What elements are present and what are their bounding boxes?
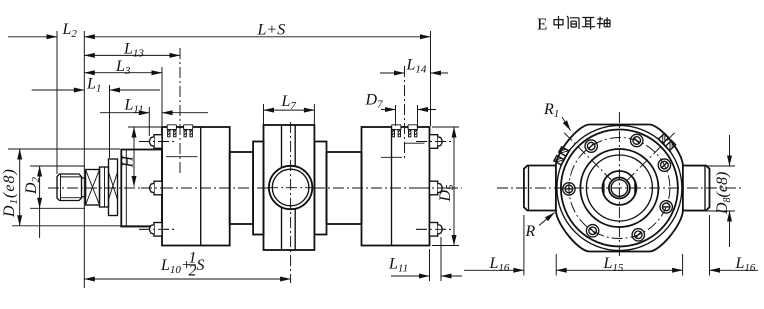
dimension D1(e8): [8, 149, 150, 226]
right pin chamfer line: [704, 166, 706, 210]
cylinder tube right section: [327, 152, 362, 224]
rear head block: [362, 127, 430, 246]
rear port cross ticks: [381, 143, 425, 157]
svg-text:H: H: [120, 155, 137, 169]
glyph jian: [567, 16, 579, 29]
dimension L13: [84, 54, 180, 56]
tie rod axis lines rear: [416, 142, 452, 230]
gland flange: [121, 150, 162, 227]
dimension L16 left: [464, 215, 556, 276]
rod neck: [82, 178, 86, 197]
rod collar: [100, 167, 109, 207]
dimension L2: [8, 31, 57, 174]
dimension L+S: [84, 31, 430, 288]
dimension L3: [161, 67, 163, 126]
dimension D7: [381, 105, 418, 126]
screw 1: [658, 159, 670, 171]
screw 2: [631, 134, 643, 146]
dimension L7: [264, 104, 315, 126]
glyph zhong: [554, 16, 563, 29]
screw 3: [585, 140, 597, 152]
front port 2: [184, 125, 193, 137]
tie rod nut rear top: [430, 135, 443, 149]
piston rod thread end: [57, 174, 82, 201]
dimension D5: [432, 127, 459, 246]
tie rod nut rear bottom: [430, 223, 443, 237]
cylinder tube left section: [230, 152, 253, 224]
diagonal center line upper-right: [627, 132, 676, 181]
front port center line: [179, 48, 181, 175]
rear port 1: [392, 125, 401, 137]
front head weld line: [200, 127, 202, 246]
dimension L11 rear: [430, 237, 442, 281]
cover circle inner: [586, 155, 652, 221]
tie rod nut front bottom: [149, 223, 162, 237]
glyph zhou: [597, 17, 610, 29]
svg-text:2: 2: [189, 263, 197, 280]
front port cross tick: [166, 156, 198, 158]
thread minor diameter lines: [61, 177, 82, 198]
title E middle trunnion: [537, 15, 610, 34]
cover circle outer: [580, 149, 658, 227]
dimension L14: [380, 72, 405, 74]
rod hole chamfer circle: [609, 178, 630, 199]
screw 4: [563, 183, 575, 195]
tie rod axis lines front: [139, 142, 176, 230]
right view vertical center line: [618, 112, 620, 256]
dimension H: [128, 126, 162, 128]
tie rod nut rear middle: [430, 181, 443, 195]
dimension L15: [682, 254, 684, 276]
dimension D2: [30, 166, 85, 238]
svg-text:S: S: [197, 257, 205, 274]
body circle: [557, 126, 682, 251]
gland boss circle: [602, 171, 636, 205]
rear port top-edge breaks: [392, 126, 417, 129]
trunnion pin circle: [269, 166, 312, 209]
diagonal center line upper-left: [564, 132, 613, 181]
svg-text:E: E: [537, 15, 547, 34]
gland box with cross: [109, 159, 118, 216]
left pin chamfer line: [528, 166, 530, 210]
dimension L1: [32, 85, 110, 158]
main horizontal center line of cylinder side view: [48, 187, 462, 189]
svg-text:D1(e8): D1(e8): [1, 168, 20, 218]
trunnion right retainer disc: [314, 142, 326, 235]
middle trunnion block: [264, 125, 315, 250]
dimension L16 right: [710, 215, 759, 276]
svg-text:L+S: L+S: [257, 22, 286, 39]
rod nut box with cross: [86, 170, 100, 206]
right trunnion pin: [683, 166, 710, 211]
glyph er: [582, 18, 595, 30]
gland boss flats: [604, 181, 635, 195]
svg-text:R: R: [525, 223, 536, 240]
rear port center line: [404, 66, 406, 160]
tie rod nut front top: [149, 135, 162, 149]
screw 6: [632, 229, 644, 241]
dimension L11 front: [100, 107, 149, 136]
rear port 2: [408, 125, 417, 137]
front port 1: [167, 125, 176, 137]
dimension D8(e8): [686, 166, 735, 211]
bolt circle: [569, 138, 670, 239]
screw 5: [586, 225, 598, 237]
trunnion left retainer disc: [253, 142, 263, 235]
rod hole: [611, 180, 628, 197]
left trunnion pin: [524, 166, 556, 211]
gland flange inner edge: [125, 150, 127, 227]
flange body outline: [556, 125, 683, 252]
tie rod axes over nuts: [139, 142, 452, 230]
flange circle: [561, 130, 678, 247]
trunnion vertical center line: [290, 122, 292, 283]
screw 7: [660, 201, 672, 213]
dimension L10+S/2: [84, 278, 290, 280]
thread chamfer line: [60, 174, 62, 201]
trunnion pin chamfer circle: [272, 169, 309, 206]
port boss upper-left: [553, 145, 570, 167]
right view horizontal center line: [497, 187, 741, 189]
port boss upper-right: [657, 132, 677, 152]
tie rod nut front middle: [149, 181, 162, 195]
trunnion block seam lines: [282, 125, 296, 250]
rear head weld line: [391, 127, 393, 246]
front head block: [162, 127, 230, 246]
trunnion horizontal center line segment: [267, 187, 314, 189]
front port top-edge breaks: [167, 126, 192, 129]
svg-text:D8(e8): D8(e8): [714, 172, 733, 215]
